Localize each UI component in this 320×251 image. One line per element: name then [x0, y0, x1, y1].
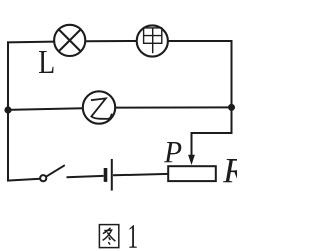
junction node right — [228, 104, 235, 111]
wire right vertical — [231, 40, 233, 133]
meter U-jia (ammeter, circle with 甲) — [137, 25, 168, 56]
caption 图 (hand-drawn glyph) — [99, 225, 118, 248]
wire middle left segment — [7, 108, 83, 110]
label L — [39, 51, 53, 73]
wire lamp to meter-jia — [85, 40, 137, 42]
wire arrow shaft to slider P — [191, 132, 193, 157]
battery cell: long thin positive plate — [111, 159, 113, 191]
battery cell: short thick negative plate — [104, 168, 108, 182]
wire left vertical — [7, 41, 9, 181]
junction node left — [4, 106, 11, 113]
wire bottom-left to switch — [7, 179, 40, 181]
switch S pivot — [40, 175, 46, 181]
label R — [223, 159, 244, 182]
wire switch to battery — [67, 176, 104, 177]
wire jog to slider arrow — [192, 132, 233, 134]
wire switch lever (open) — [46, 165, 65, 177]
wire middle right segment — [115, 106, 231, 108]
label P (slider) — [164, 142, 181, 162]
wire battery to rheostat — [113, 174, 169, 175]
slider arrowhead — [188, 155, 195, 165]
caption numeral 1 — [129, 225, 136, 248]
wire meter-jia to top-right corner — [168, 40, 233, 42]
wire top-left segment — [7, 41, 55, 44]
meter U-yi (circle with 乙) — [83, 91, 115, 123]
lamp L — [54, 25, 85, 56]
rheostat R body — [168, 166, 216, 181]
